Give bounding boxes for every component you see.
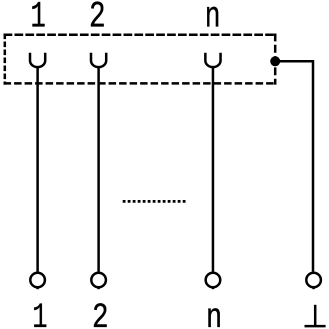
svg-text:n: n [206, 299, 222, 329]
svg-text:1: 1 [32, 298, 47, 329]
svg-text:n: n [205, 0, 221, 38]
svg-text:1: 1 [30, 0, 45, 38]
svg-text:2: 2 [89, 0, 106, 38]
svg-text:2: 2 [92, 299, 109, 329]
